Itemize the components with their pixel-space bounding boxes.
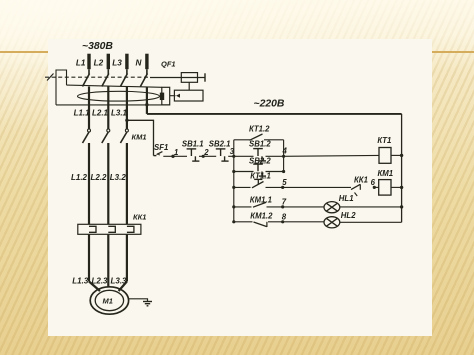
wire row 7 from rail [234, 206, 252, 208]
enclosure boundary left line [55, 77, 57, 105]
motor M1 outer circle [90, 287, 128, 314]
enclosure boundary lower line [56, 104, 170, 106]
wire KT1 coil to bus [391, 154, 402, 156]
terminal bar L2 [107, 54, 110, 69]
motor M1 inner circle [95, 290, 123, 310]
svg-text:7: 7 [282, 198, 287, 207]
contact KM1.2 blade [254, 222, 267, 227]
svg-text:L1: L1 [76, 58, 86, 67]
svg-text:~220В: ~220В [254, 99, 285, 110]
contact KM1.2 tick [266, 222, 268, 227]
junction dot row 8 rail [232, 220, 235, 223]
button SB2.2 [253, 164, 266, 176]
svg-text:КК1: КК1 [133, 213, 146, 222]
svg-text:L2: L2 [94, 58, 104, 67]
wire main row node 4 to KT1 coil [284, 154, 379, 157]
wire KM1.1 to HL1 [267, 206, 325, 208]
terminal bar N [145, 54, 148, 69]
button SB1.2 [253, 149, 266, 161]
timer contact KT1.2 blade [250, 134, 263, 140]
svg-text:М1: М1 [103, 297, 113, 306]
button SB2.1 [216, 149, 229, 161]
left control rail [233, 172, 235, 222]
junction dot SB2.2 right [282, 170, 285, 173]
node 4 dot [282, 155, 285, 158]
wire KT1.1 to KK1 [266, 186, 352, 188]
heater jog phase 1 [89, 226, 96, 232]
svg-text:6: 6 [371, 178, 376, 187]
button SB1.1 [187, 149, 200, 161]
svg-text:L3.3: L3.3 [111, 277, 128, 286]
node 3 dot [232, 155, 235, 158]
thermal relay KK1 heater box [78, 224, 141, 234]
device input arrow [176, 94, 180, 98]
svg-text:L1.3: L1.3 [72, 277, 89, 286]
svg-text:~380В: ~380В [82, 41, 113, 52]
node 5 dot [281, 186, 284, 189]
svg-text:HL2: HL2 [341, 211, 356, 220]
svg-text:8: 8 [282, 212, 287, 221]
wire row 8 from rail [234, 221, 253, 223]
junction dot HL1 bus [400, 205, 403, 208]
svg-text:L1.2: L1.2 [71, 173, 88, 182]
wire motor to ground [128, 299, 147, 302]
contactor KM1 main contact 2 [102, 129, 110, 143]
junction dot on L3 tap [125, 119, 128, 122]
wire socket to device [170, 95, 176, 97]
svg-text:L3.2: L3.2 [110, 173, 127, 182]
wire SB1.2 to node 4 [266, 155, 284, 157]
breaker QF1 trip slash mark [47, 74, 54, 81]
device box [174, 90, 203, 101]
contactor KM1 main contact 3 [120, 129, 128, 143]
timer contact KT1.1 blade [252, 182, 264, 188]
wire node 6 to KM1 coil [374, 186, 378, 188]
wire KT1.2 branch left [234, 139, 250, 141]
fuse end terminal tick [204, 73, 206, 81]
node 7 dot [281, 205, 284, 208]
thermal contact KK1 tick [359, 184, 361, 190]
svg-text:SF1: SF1 [154, 143, 168, 152]
wire KM1.2 to HL2 [268, 221, 324, 223]
svg-text:SB2.1: SB2.1 [209, 139, 231, 148]
220V neutral bus wire [147, 113, 402, 115]
wire phase L3 middle [126, 143, 128, 224]
enclosure boundary upper line [67, 85, 162, 87]
wire SB2.1 to node 3 [228, 155, 253, 157]
plug contact filled bar [160, 93, 164, 100]
node 1 dot [171, 155, 174, 158]
breaker QF1 pole 1 blade [83, 69, 90, 86]
junction dot on N wire [145, 103, 148, 106]
heater jog phase 3 [127, 226, 134, 232]
svg-text:КТ1: КТ1 [377, 136, 391, 145]
wire phase L2 upper [107, 87, 109, 130]
node 8 dot [281, 220, 284, 223]
junction dot row 7 rail [232, 205, 235, 208]
svg-text:4: 4 [282, 147, 288, 156]
wire phase L1 middle [88, 143, 90, 224]
svg-text:1: 1 [174, 148, 178, 157]
wire KM1 coil to bus [391, 186, 402, 188]
timer contact KT1.1 delay mark (T) [254, 179, 262, 184]
terminal bar L1 [87, 54, 90, 69]
contactor KM1 main contact 1 [83, 129, 91, 143]
svg-text:КТ1.1: КТ1.1 [250, 172, 270, 181]
decorative horizontal rule on slide background [0, 51, 474, 53]
junction dot KM1 bus [400, 186, 403, 189]
svg-text:КМ1.2: КМ1.2 [250, 211, 273, 220]
svg-text:N: N [136, 58, 143, 67]
svg-text:SB2.2: SB2.2 [249, 156, 271, 165]
svg-text:L3.1: L3.1 [111, 108, 128, 117]
svg-text:QF1: QF1 [161, 60, 176, 69]
svg-text:L2.2: L2.2 [91, 173, 108, 182]
wire KT1.2 branch right [264, 139, 284, 141]
fuse FU body [181, 73, 197, 83]
svg-text:КК1: КК1 [354, 176, 368, 185]
wire neutral N down to bus [146, 87, 148, 114]
thermal contact KK1 blade [351, 184, 360, 189]
lamp HL2 [324, 217, 340, 228]
svg-text:КМ1: КМ1 [378, 169, 394, 178]
svg-text:L2.1: L2.1 [92, 108, 109, 117]
wire phase L1 upper [88, 87, 90, 130]
wire HL1 to bus [340, 206, 402, 208]
svg-text:HL1: HL1 [339, 194, 354, 203]
plug socket rectangle [162, 87, 170, 105]
wire phase L1 lower [88, 234, 90, 281]
contact KM1.1 blade [253, 202, 266, 207]
timer contact KT1.2 branch right rail [283, 140, 285, 157]
breaker QF1 pole 3 blade [120, 69, 127, 86]
wire control tap from L3.1 [127, 120, 154, 155]
wire SB2.2 branch left [234, 171, 254, 173]
ground symbol [143, 302, 152, 306]
contactor coil KM1 [379, 180, 391, 196]
wire row 5 from rail [234, 186, 251, 188]
current loop ellipse [78, 91, 160, 101]
button SB2.2 branch right rail [283, 156, 285, 171]
svg-text:5: 5 [282, 178, 287, 187]
enclosure boundary polyline (hat) [56, 70, 67, 85]
switch SF1 tick [158, 153, 160, 155]
node 2 dot [202, 155, 205, 158]
junction dot row 5 rail [232, 186, 235, 189]
wire SB2.2 branch right [266, 171, 284, 173]
node 6 dot [373, 186, 376, 189]
wire HL2 to bus [340, 221, 402, 223]
wire phase L2 lower [107, 234, 109, 287]
svg-text:КМ1: КМ1 [132, 133, 147, 142]
svg-text:КМ1.1: КМ1.1 [250, 196, 272, 205]
junction dot SB2.2 left [232, 170, 235, 173]
timer relay coil KT1 [379, 148, 391, 164]
wire phase L2 middle [107, 143, 109, 224]
svg-text:SB1.1: SB1.1 [182, 139, 204, 148]
white schematic panel [48, 39, 433, 336]
svg-text:КТ1.2: КТ1.2 [249, 125, 270, 134]
switch SF1 blade [157, 152, 163, 155]
wire phase L3 upper [126, 87, 128, 130]
svg-text:L2.3: L2.3 [92, 277, 109, 286]
wire phase L3 lower [126, 234, 128, 281]
fuse through wire [150, 77, 205, 79]
breaker QF1 pole 2 blade [102, 69, 109, 86]
timer contact KT1.2 branch left rail [233, 140, 235, 157]
motor lead L3 diagonal [119, 282, 127, 292]
thermal contact KK1 release mark [355, 193, 358, 197]
svg-text:L1.1: L1.1 [74, 108, 91, 117]
svg-text:SB1.2: SB1.2 [249, 140, 271, 149]
lamp HL1 [324, 202, 340, 213]
button SB2.2 branch left rail [233, 156, 235, 171]
right return bus [401, 114, 403, 222]
heater jog phase 2 [108, 226, 115, 232]
breaker QF1 pole 4 blade [140, 69, 147, 86]
motor lead L1 diagonal [89, 282, 100, 292]
breaker QF1 linkage dashed line [45, 76, 150, 78]
wire fuse to device box [188, 82, 190, 90]
terminal bar L3 [125, 54, 128, 69]
wire SB1.1 to SB2.1 [199, 155, 216, 157]
wire SF1 to node 1 and SB1.1 [163, 155, 187, 157]
svg-text:2: 2 [203, 148, 209, 157]
svg-text:L3: L3 [112, 58, 122, 67]
switch SF1 foot [154, 155, 157, 157]
junction dot KT1 bus [400, 154, 403, 157]
